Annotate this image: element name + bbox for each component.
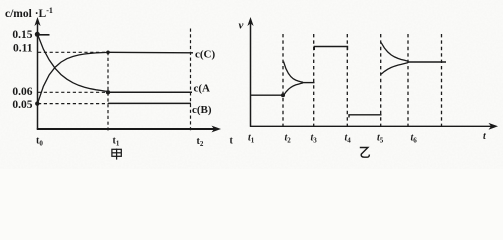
right x-axis arrowhead: [489, 123, 499, 130]
line c(A) after t1: [108, 91, 192, 93]
curve c(C) increasing: [38, 52, 109, 103]
right y-axis: [250, 20, 252, 127]
left y-axis: [37, 20, 39, 130]
dashed vertical t4 right: [346, 34, 348, 128]
curve c(A) decreasing: [38, 34, 109, 91]
label yi (乙) drawn: [360, 148, 370, 158]
right y-axis arrowhead: [247, 17, 253, 26]
upper branch at t5: [381, 42, 408, 61]
rate segment to t3: [302, 82, 315, 84]
line c(C) after t1: [108, 51, 193, 54]
dot at t1/0.11: [106, 51, 110, 55]
svg-text:c(C): c(C): [195, 48, 215, 60]
dot at t1/0.06: [106, 90, 110, 94]
svg-text:0.05: 0.05: [12, 99, 32, 111]
scan noise: [0, 0, 503, 169]
line c(B) after t1: [108, 102, 191, 104]
dashed vertical t3 right: [313, 34, 315, 128]
svg-text:0.11: 0.11: [13, 43, 33, 55]
rate segment t3-t4: [314, 47, 347, 51]
right x-axis: [250, 125, 492, 127]
upper branch at t2: [284, 62, 304, 83]
svg-text:c(B): c(B): [192, 104, 212, 116]
rate segment t4-t5: [349, 115, 382, 118]
lower branch at t2: [284, 83, 304, 96]
svg-text:c(A: c(A: [194, 83, 211, 95]
svg-text:0.15: 0.15: [12, 29, 32, 41]
dashed vertical t2 right: [282, 34, 284, 128]
dashed vertical t1: [107, 52, 109, 131]
dot at 0.05 on axis: [35, 101, 39, 105]
svg-text:0.06: 0.06: [12, 86, 32, 98]
lower branch at t5: [381, 63, 408, 75]
dashed vertical end right: [441, 34, 443, 128]
paper background: [0, 0, 503, 169]
dashed level 0.06: [38, 91, 108, 93]
dashed vertical t2: [190, 29, 192, 131]
left x-axis: [37, 128, 215, 130]
dot at t2 jump: [281, 93, 285, 97]
svg-text:v: v: [239, 20, 244, 32]
dot at 0.15 on axis: [35, 32, 40, 37]
svg-text:c/mol ·L-1: c/mol ·L-1: [5, 6, 53, 20]
tick at 0.15: [37, 34, 50, 36]
label jia (甲) drawn: [112, 149, 121, 160]
left x-axis arrowhead: [212, 126, 222, 133]
left y-axis arrowhead: [34, 17, 40, 26]
dashed level 0.05: [38, 103, 108, 105]
dashed level 0.11: [38, 51, 108, 53]
rate segment t1-t2: [251, 94, 284, 96]
dashed vertical t5 right: [380, 34, 382, 128]
rate segment after t6: [408, 61, 446, 63]
dashed vertical t6 right: [407, 34, 409, 128]
